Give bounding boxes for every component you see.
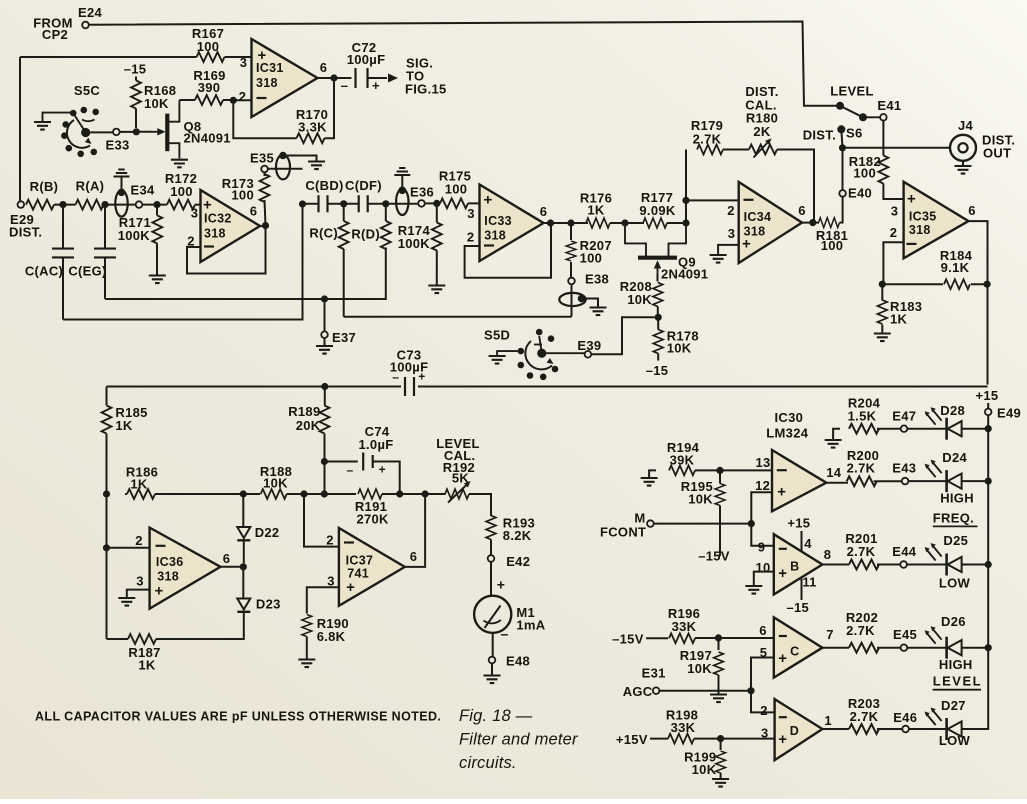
wire: [303, 203, 344, 205]
svg-text:–: –: [500, 626, 508, 642]
arrow SIG TO FIG.15: [388, 56, 447, 97]
node M FCONT terminal: [600, 511, 654, 540]
ground R194: [641, 470, 658, 485]
svg-text:CP2: CP2: [42, 27, 68, 42]
svg-text:S6: S6: [846, 126, 863, 141]
resistor R(D): [351, 204, 390, 249]
resistor R182: [849, 121, 904, 199]
resistor R208: [620, 274, 663, 314]
svg-text:ALL CAPACITOR VALUES ARE pF UN: ALL CAPACITOR VALUES ARE pF UNLESS OTHER…: [35, 710, 441, 724]
svg-text:+: +: [346, 579, 355, 596]
node E36 terminal: [418, 200, 425, 207]
svg-text:33K: 33K: [672, 619, 697, 634]
op-amp IC36: [135, 528, 230, 609]
wire: [907, 428, 947, 430]
svg-text:J4: J4: [958, 118, 974, 133]
svg-text:E41: E41: [877, 98, 901, 113]
svg-text:20K: 20K: [296, 418, 321, 433]
svg-text:2: 2: [890, 225, 898, 240]
junction node B: [101, 201, 108, 208]
wire: [469, 494, 491, 516]
wire IC30B pin10 ground: [754, 572, 774, 586]
svg-text:E48: E48: [506, 654, 530, 669]
svg-text:IC30: IC30: [775, 410, 804, 425]
resistor R183: [874, 284, 922, 341]
svg-text:100µF: 100µF: [347, 52, 386, 67]
potentiometer R192 LEVEL CAL: [436, 436, 479, 503]
wire pin2 to IC31: [233, 99, 251, 101]
junction FCONT node: [748, 520, 755, 527]
svg-text:R(C): R(C): [309, 226, 338, 241]
junction C74 right: [396, 490, 403, 497]
resistor R204: [848, 396, 881, 434]
wire: [695, 637, 774, 639]
svg-text:+: +: [379, 463, 386, 477]
svg-text:5K: 5K: [452, 471, 470, 486]
jack E38 horizontal: [559, 293, 606, 315]
ground IC36 pin3: [118, 598, 135, 606]
ground R204: [825, 429, 842, 448]
op-amp IC33: [467, 185, 547, 262]
wire IC30D output: [822, 728, 849, 730]
svg-text:3: 3: [136, 574, 144, 589]
diode D22: [237, 494, 279, 563]
LED D25: [925, 533, 969, 576]
resistor R197: [680, 638, 727, 702]
svg-text:IC32: IC32: [204, 212, 232, 226]
junction R195 top: [716, 467, 723, 474]
svg-text:10: 10: [755, 560, 770, 575]
svg-text:OUT: OUT: [983, 146, 1011, 161]
junction IC36 pin2: [103, 544, 110, 551]
svg-text:R(A): R(A): [76, 179, 105, 194]
wire: [962, 428, 989, 430]
wire R167 input line: [20, 57, 252, 201]
capacitor C(AC): [25, 205, 74, 320]
svg-text:–: –: [341, 78, 349, 93]
svg-text:R(B): R(B): [30, 179, 59, 194]
resistor R200: [847, 448, 879, 486]
svg-text:270K: 270K: [356, 512, 389, 527]
svg-text:10K: 10K: [627, 292, 652, 307]
resistor R169: [179, 68, 233, 105]
svg-text:11: 11: [802, 575, 816, 590]
svg-text:AGC: AGC: [623, 684, 653, 699]
svg-text:E34: E34: [131, 183, 156, 198]
svg-text:FCONT: FCONT: [600, 525, 646, 540]
resistor R174: [398, 203, 446, 293]
wire: [425, 202, 434, 204]
svg-text:S5C: S5C: [74, 83, 101, 98]
node E34 terminal: [136, 201, 143, 208]
svg-text:2: 2: [727, 203, 735, 218]
wire IC35 pin2 feedback: [883, 242, 903, 284]
svg-text:IC37: IC37: [346, 554, 374, 568]
svg-text:100K: 100K: [118, 228, 151, 243]
svg-text:5: 5: [760, 645, 768, 660]
junction D24 node: [985, 478, 992, 485]
junction R189 bottom node: [321, 490, 328, 497]
svg-text:D23: D23: [256, 597, 281, 612]
junction R207 node: [567, 219, 574, 226]
svg-text:1: 1: [824, 713, 832, 728]
switch S6: [803, 84, 874, 143]
junction R199 top: [717, 735, 724, 742]
resistor R171: [118, 205, 166, 284]
resistor R207: [566, 223, 612, 278]
svg-text:318: 318: [256, 76, 278, 90]
label IC30 LM324: [766, 410, 808, 441]
op-amp IC31: [239, 39, 328, 117]
svg-text:DIST.: DIST.: [9, 225, 42, 240]
svg-text:2.7K: 2.7K: [850, 709, 879, 724]
svg-text:–15: –15: [646, 363, 669, 378]
svg-text:E46: E46: [893, 710, 917, 725]
junction Q9 right: [682, 219, 689, 226]
svg-text:D22: D22: [255, 525, 280, 540]
meter M1 1mA: [474, 577, 546, 642]
wire: [962, 647, 989, 649]
junction D25 node: [985, 561, 992, 568]
svg-text:+: +: [372, 78, 380, 93]
node E38 terminal: [568, 272, 609, 287]
junction IC33 output: [547, 219, 554, 226]
svg-text:E47: E47: [892, 409, 916, 424]
svg-text:B: B: [790, 560, 799, 574]
svg-text:E31: E31: [642, 666, 666, 681]
wire IC36 pin2: [107, 494, 150, 639]
wire: [492, 633, 494, 657]
svg-text:100: 100: [231, 188, 254, 203]
op-amp IC34: [727, 182, 806, 263]
svg-text:+: +: [418, 370, 425, 384]
node E39 terminal: [577, 338, 601, 358]
junction IC37 pin2 node: [300, 490, 307, 497]
svg-text:2: 2: [239, 89, 247, 104]
resistor R191: [355, 489, 389, 526]
junction IC31 pin2 node: [230, 97, 237, 104]
svg-text:2.7K: 2.7K: [846, 623, 875, 638]
svg-text:318: 318: [157, 570, 179, 584]
junction IC36 output: [240, 563, 247, 570]
caption Fig. 18: [459, 707, 579, 772]
op-amp IC30D: [760, 699, 832, 760]
junction D26 node: [985, 644, 992, 651]
wire E38 down to bus: [571, 284, 573, 316]
node E41 terminal: [867, 98, 902, 121]
svg-text:E38: E38: [585, 272, 609, 287]
junction IC31 output: [330, 74, 337, 81]
junction E49 node: [985, 425, 992, 432]
resistor R175: [437, 169, 480, 209]
wire: [287, 493, 356, 495]
wire: [874, 480, 902, 482]
node E49 terminal +15: [976, 388, 1022, 429]
wire: [909, 728, 947, 730]
svg-text:LOW: LOW: [939, 733, 971, 748]
svg-text:1K: 1K: [587, 203, 605, 218]
svg-text:C(AC): C(AC): [25, 264, 63, 279]
resistor R(C): [309, 204, 348, 317]
svg-text:6: 6: [223, 551, 231, 566]
label -15V input: [612, 632, 644, 647]
svg-text:+: +: [778, 565, 787, 582]
svg-text:E40: E40: [848, 186, 872, 201]
svg-text:IC34: IC34: [744, 210, 772, 224]
resistor R198: [666, 708, 698, 744]
svg-text:+: +: [154, 583, 163, 600]
svg-text:6: 6: [759, 623, 767, 638]
resistor R176: [580, 191, 612, 228]
wire E40 to R181: [842, 197, 844, 223]
svg-text:D28: D28: [940, 403, 965, 418]
wire S6 to J4 node: [841, 129, 842, 190]
label +15: [787, 516, 810, 531]
resistor R193: [486, 516, 535, 556]
svg-text:DIST.: DIST.: [803, 128, 836, 143]
svg-text:2.7K: 2.7K: [847, 544, 876, 559]
potentiometer R180 DIST CAL: [745, 84, 778, 158]
wire IC37 pin2: [304, 494, 339, 547]
junction D22 node: [240, 490, 247, 497]
svg-text:10K: 10K: [692, 762, 717, 777]
svg-text:4: 4: [804, 536, 812, 551]
label -15: [787, 600, 810, 615]
svg-text:LM324: LM324: [766, 426, 808, 441]
junction J4 node: [839, 144, 846, 151]
svg-text:+15: +15: [787, 516, 810, 531]
resistor R195: [681, 470, 730, 563]
svg-text:D27: D27: [941, 698, 966, 713]
svg-text:6: 6: [250, 204, 258, 219]
wire: [962, 564, 989, 566]
switch S5D: [484, 328, 585, 381]
svg-text:+: +: [778, 731, 787, 748]
svg-text:–: –: [347, 463, 354, 477]
transistor Q8 2N4091: [153, 100, 231, 167]
wire S5C to Q8 gate: [90, 131, 152, 134]
svg-text:–15: –15: [787, 600, 810, 615]
wire: [667, 222, 686, 224]
svg-text:D24: D24: [942, 450, 967, 465]
capacitor C73: [390, 348, 429, 397]
svg-text:2K: 2K: [753, 124, 771, 139]
svg-text:6: 6: [798, 203, 806, 218]
junction IC37 output node: [422, 490, 429, 497]
resistor R167: [192, 26, 225, 62]
resistor R189: [288, 387, 329, 495]
node E37 terminal: [316, 299, 356, 354]
svg-text:–15V: –15V: [612, 632, 644, 647]
connector J4 DIST OUT: [950, 118, 1015, 174]
svg-text:6: 6: [410, 549, 418, 564]
svg-text:3: 3: [728, 226, 736, 241]
wire FCONT line: [654, 523, 752, 525]
svg-text:14: 14: [826, 465, 842, 480]
wire E35 to C(BD) node: [268, 168, 303, 170]
svg-text:33K: 33K: [671, 720, 696, 735]
capacitor C72: [341, 40, 386, 93]
capacitor C(DF): [345, 178, 382, 212]
svg-text:+: +: [497, 577, 505, 593]
resistor R168: [131, 77, 176, 129]
svg-text:2: 2: [760, 703, 768, 718]
capacitor C(BD): [305, 178, 343, 212]
junction R186 left: [103, 490, 110, 497]
wire to pin9: [751, 524, 774, 546]
label HIGH FREQ: [933, 491, 978, 527]
svg-text:+: +: [778, 650, 787, 667]
svg-text:HIGH: HIGH: [940, 491, 974, 506]
wire: [155, 493, 260, 495]
junction R183 node: [879, 281, 886, 288]
op-amp IC30B: [755, 534, 831, 594]
wire IC30B pin11 -15: [801, 577, 803, 600]
wire: [907, 647, 947, 649]
wire IC30A output: [826, 482, 848, 484]
svg-text:100: 100: [580, 251, 603, 266]
svg-text:2N4091: 2N4091: [184, 131, 231, 146]
svg-text:IC36: IC36: [156, 555, 184, 569]
svg-text:13: 13: [755, 455, 770, 470]
resistor R172: [157, 171, 201, 210]
svg-text:10K: 10K: [263, 476, 288, 491]
jack E34: [114, 170, 156, 217]
node E45 terminal: [893, 627, 917, 651]
svg-text:7: 7: [826, 627, 834, 642]
svg-text:318: 318: [909, 223, 931, 237]
wire: [877, 564, 900, 566]
svg-text:–15V: –15V: [698, 549, 730, 564]
label HIGH LEVEL: [933, 657, 982, 690]
svg-text:+: +: [483, 192, 492, 209]
svg-text:3.3K: 3.3K: [298, 120, 327, 135]
ground E48: [484, 663, 501, 683]
junction R(D) node: [382, 200, 389, 207]
svg-text:E45: E45: [893, 627, 917, 642]
junction R197 top: [715, 634, 722, 641]
jack E35: [276, 152, 325, 180]
svg-text:100: 100: [821, 238, 844, 253]
wire R180 to IC34 output: [777, 150, 814, 223]
resistor R179: [691, 118, 723, 154]
wire LED rail: [962, 429, 989, 729]
svg-text:100: 100: [170, 184, 193, 199]
wire C(EG) to R(D): [105, 248, 386, 300]
svg-text:E43: E43: [892, 461, 916, 476]
junction pin2 node: [682, 197, 689, 204]
resistor R196: [668, 606, 700, 643]
wire: [490, 562, 492, 596]
svg-text:1K: 1K: [890, 312, 908, 327]
resistor R(A): [54, 179, 105, 210]
wire IC37 pin3: [307, 587, 339, 613]
caption all capacitor values: [35, 710, 441, 724]
junction R168/E33: [133, 128, 140, 135]
wire: [386, 203, 418, 205]
svg-text:–: –: [392, 370, 399, 384]
svg-text:E44: E44: [892, 544, 917, 559]
node E48 terminal: [489, 654, 530, 669]
svg-text:LEVEL: LEVEL: [830, 84, 873, 99]
svg-text:E42: E42: [506, 554, 530, 569]
wire to J4: [846, 147, 950, 149]
svg-text:IC33: IC33: [484, 214, 512, 228]
svg-text:1K: 1K: [130, 477, 148, 492]
ground IC34 pin3: [710, 255, 727, 263]
junction R184 right: [984, 281, 991, 288]
svg-text:–15: –15: [124, 62, 147, 77]
resistor R187: [107, 634, 161, 672]
svg-text:E24: E24: [78, 5, 103, 20]
svg-text:12: 12: [755, 478, 770, 493]
node E33 terminal: [105, 129, 129, 153]
junction IC32 output: [262, 222, 269, 229]
diode D23: [156, 567, 281, 639]
svg-text:D: D: [790, 724, 799, 738]
op-amp IC30C: [759, 617, 834, 677]
svg-text:10K: 10K: [667, 341, 692, 356]
resistor R184: [882, 248, 987, 289]
svg-text:E39: E39: [577, 338, 601, 353]
svg-text:2: 2: [326, 533, 334, 548]
wire: [908, 480, 947, 482]
wire IC37 output: [405, 494, 425, 567]
resistor R186: [125, 465, 158, 499]
svg-text:3: 3: [467, 206, 475, 221]
svg-text:S5D: S5D: [484, 328, 510, 343]
resistor R201: [845, 531, 879, 569]
resistor R170: [296, 107, 328, 143]
svg-text:3: 3: [761, 726, 769, 741]
wire: [646, 637, 668, 639]
wire IC33 output: [544, 222, 589, 224]
svg-text:6: 6: [320, 60, 328, 75]
svg-text:+: +: [907, 191, 916, 208]
junction R189 top: [321, 383, 328, 390]
resistor R178: [646, 317, 699, 378]
wire IC35 output down to meter bus: [969, 221, 988, 384]
wire: [877, 428, 901, 430]
LED D24: [925, 450, 968, 492]
wire E39 to R178 node: [591, 317, 655, 354]
node E40 terminal: [839, 186, 872, 201]
junction E37 node: [321, 295, 328, 302]
wire IC32 feedback: [187, 229, 266, 274]
svg-text:6: 6: [968, 203, 976, 218]
svg-text:+15: +15: [976, 388, 999, 403]
svg-text:LEVEL: LEVEL: [933, 674, 982, 689]
op-amp IC32: [187, 190, 260, 262]
LED D27: [925, 698, 966, 740]
wire IC30C output: [822, 647, 849, 649]
svg-text:E33: E33: [105, 138, 129, 153]
svg-text:3: 3: [891, 204, 899, 219]
svg-text:8: 8: [824, 547, 832, 562]
wire C(AC) to C(BD) node: [63, 204, 303, 320]
wire IC34 pin2 node: [686, 150, 739, 224]
wire: [695, 469, 772, 471]
node E44 terminal: [892, 544, 917, 568]
junction C74 left: [321, 458, 328, 465]
svg-text:LOW: LOW: [939, 576, 971, 591]
svg-text:circuits.: circuits.: [459, 754, 517, 772]
svg-text:FREQ.: FREQ.: [933, 511, 974, 526]
wire IC31 output: [318, 77, 352, 79]
node E43 terminal: [892, 461, 916, 485]
svg-text:FIG.15: FIG.15: [405, 82, 447, 97]
node E42 terminal: [488, 554, 531, 569]
